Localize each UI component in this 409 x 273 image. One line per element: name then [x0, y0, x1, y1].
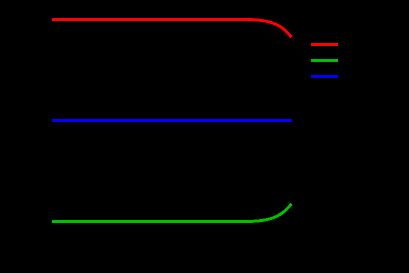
blue line (series 3) [52, 119, 292, 122]
red curve (series 1) [52, 20, 292, 38]
legend sample: red [311, 43, 338, 46]
legend sample: blue [311, 75, 338, 78]
legend sample: green [311, 59, 338, 62]
green curve (series 2) [52, 204, 292, 222]
